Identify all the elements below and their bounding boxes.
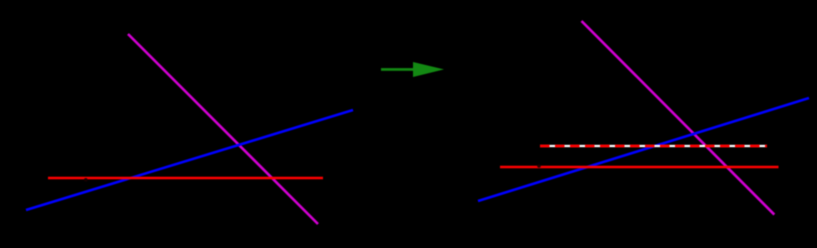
right panel red solid line [500,166,779,169]
dark smudge on left red line [84,178,88,182]
left panel blue line [26,110,353,210]
right panel magenta line [582,21,775,215]
dark smudge on right red line [537,164,541,168]
right panel blue line [478,98,809,201]
left panel red line [48,177,323,180]
green arrow [381,62,444,77]
right panel white line under dashes [540,145,767,147]
left panel magenta line [128,34,318,224]
right panel red dashed line [540,145,767,148]
